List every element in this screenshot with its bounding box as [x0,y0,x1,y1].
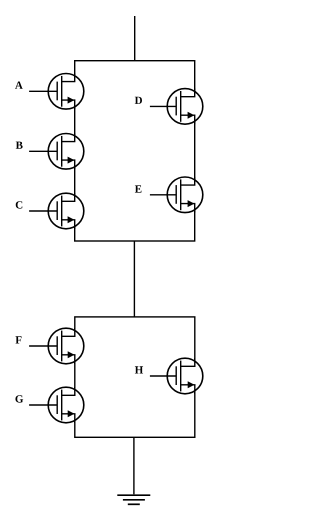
wire: to ground [133,437,135,494]
wire: middle connection [133,241,135,317]
label H [135,366,143,373]
transistor E [150,177,203,213]
transistor C [29,193,84,229]
transistor D [150,88,203,124]
label A [15,82,23,89]
wire loop: lower rectangle (series F,G left; H right) [75,317,195,437]
transistor F [29,328,84,364]
label C [16,201,23,208]
wire loop: upper rectangle (series A,B,C left; D,E right) [75,61,195,241]
label E [135,185,142,192]
transistor H [150,358,203,394]
label D [135,97,142,104]
transistor B [29,133,84,169]
ground [117,495,150,504]
label G [15,395,23,402]
label F [15,336,21,343]
transistor G [29,387,84,423]
wire: top supply [134,16,136,61]
label B [16,142,23,149]
transistor A [29,73,84,109]
